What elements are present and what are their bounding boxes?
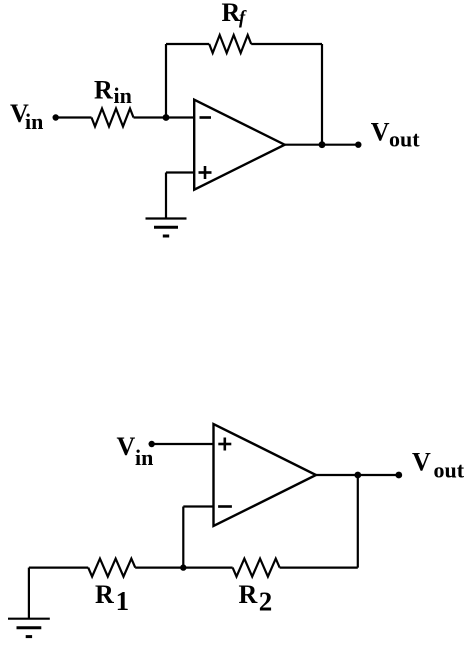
label Rin [94,76,132,109]
resistor R1 [88,559,135,577]
resistor Rin [92,109,134,127]
label R1 [95,580,129,616]
resistor Rf [209,35,251,53]
node output junction dot (bottom) [354,472,361,479]
node feedback junction dot (bottom) [180,564,186,570]
svg-text:out: out [389,126,420,151]
ground (bottom circuit) [8,619,50,637]
wire feedback top right horizontal [251,43,322,45]
wire op-amp output (bottom) [316,474,399,476]
svg-text:V: V [412,448,431,477]
wire Rin to op-amp inverting input [134,116,195,118]
wire op-amp output [285,144,359,146]
wire feedback vertical up to output [357,475,359,568]
node Vout terminal dot (bottom) [395,472,402,479]
wire ground corner to R1 [29,566,88,568]
svg-text:R: R [222,0,241,27]
svg-text:V: V [117,432,136,461]
wire feedback top left horizontal [166,43,209,45]
label Vin (bottom) [117,432,154,470]
svg-text:1: 1 [116,586,130,616]
node output junction dot (feedback tap) [319,141,326,148]
ground (top circuit) [146,219,187,237]
op-amp U1 triangle [194,100,285,190]
U2 plus sign (non-inverting input mark) [218,438,231,451]
U2 minus sign (inverting input mark) [218,505,232,508]
wire R2 to output corner [280,566,358,568]
svg-text:in: in [114,83,132,108]
wire feedback left vertical [165,44,167,118]
wire vertical down to ground [165,173,167,219]
resistor R2 [233,559,280,577]
svg-text:R: R [239,580,258,609]
svg-text:2: 2 [259,586,273,616]
node Vin terminal dot (top) [53,114,59,120]
label Vin (top) [10,99,43,134]
wire Vin dot to Rin [56,116,92,118]
wire non-inverting input to ground branch [166,171,194,173]
label Vout (top) [371,117,420,151]
svg-text:out: out [434,458,465,483]
wire feedback right vertical down to output [321,44,323,145]
wire Vin dot to non-inverting input [152,443,214,445]
label Rf [222,0,248,28]
node Vin terminal dot (bottom) [149,441,155,447]
wire bottom ground vertical [28,568,30,619]
wire inverting input vertical down [182,507,184,568]
wire inverting input horizontal [183,505,213,507]
wire R1 to junction to R2 [135,566,232,568]
label Vout (bottom) [412,448,465,483]
svg-text:in: in [25,109,43,134]
svg-text:R: R [94,76,113,105]
U1 plus sign (non-inverting input mark) [199,166,212,179]
svg-text:in: in [135,445,153,470]
node Vout terminal dot (top) [355,142,361,148]
node junction dot at inverting input [163,114,170,121]
svg-text:R: R [95,580,114,609]
op-amp U2 triangle [214,424,317,526]
U1 minus sign (inverting input mark) [200,116,212,119]
svg-text:V: V [371,117,390,146]
label R2 [239,580,273,616]
